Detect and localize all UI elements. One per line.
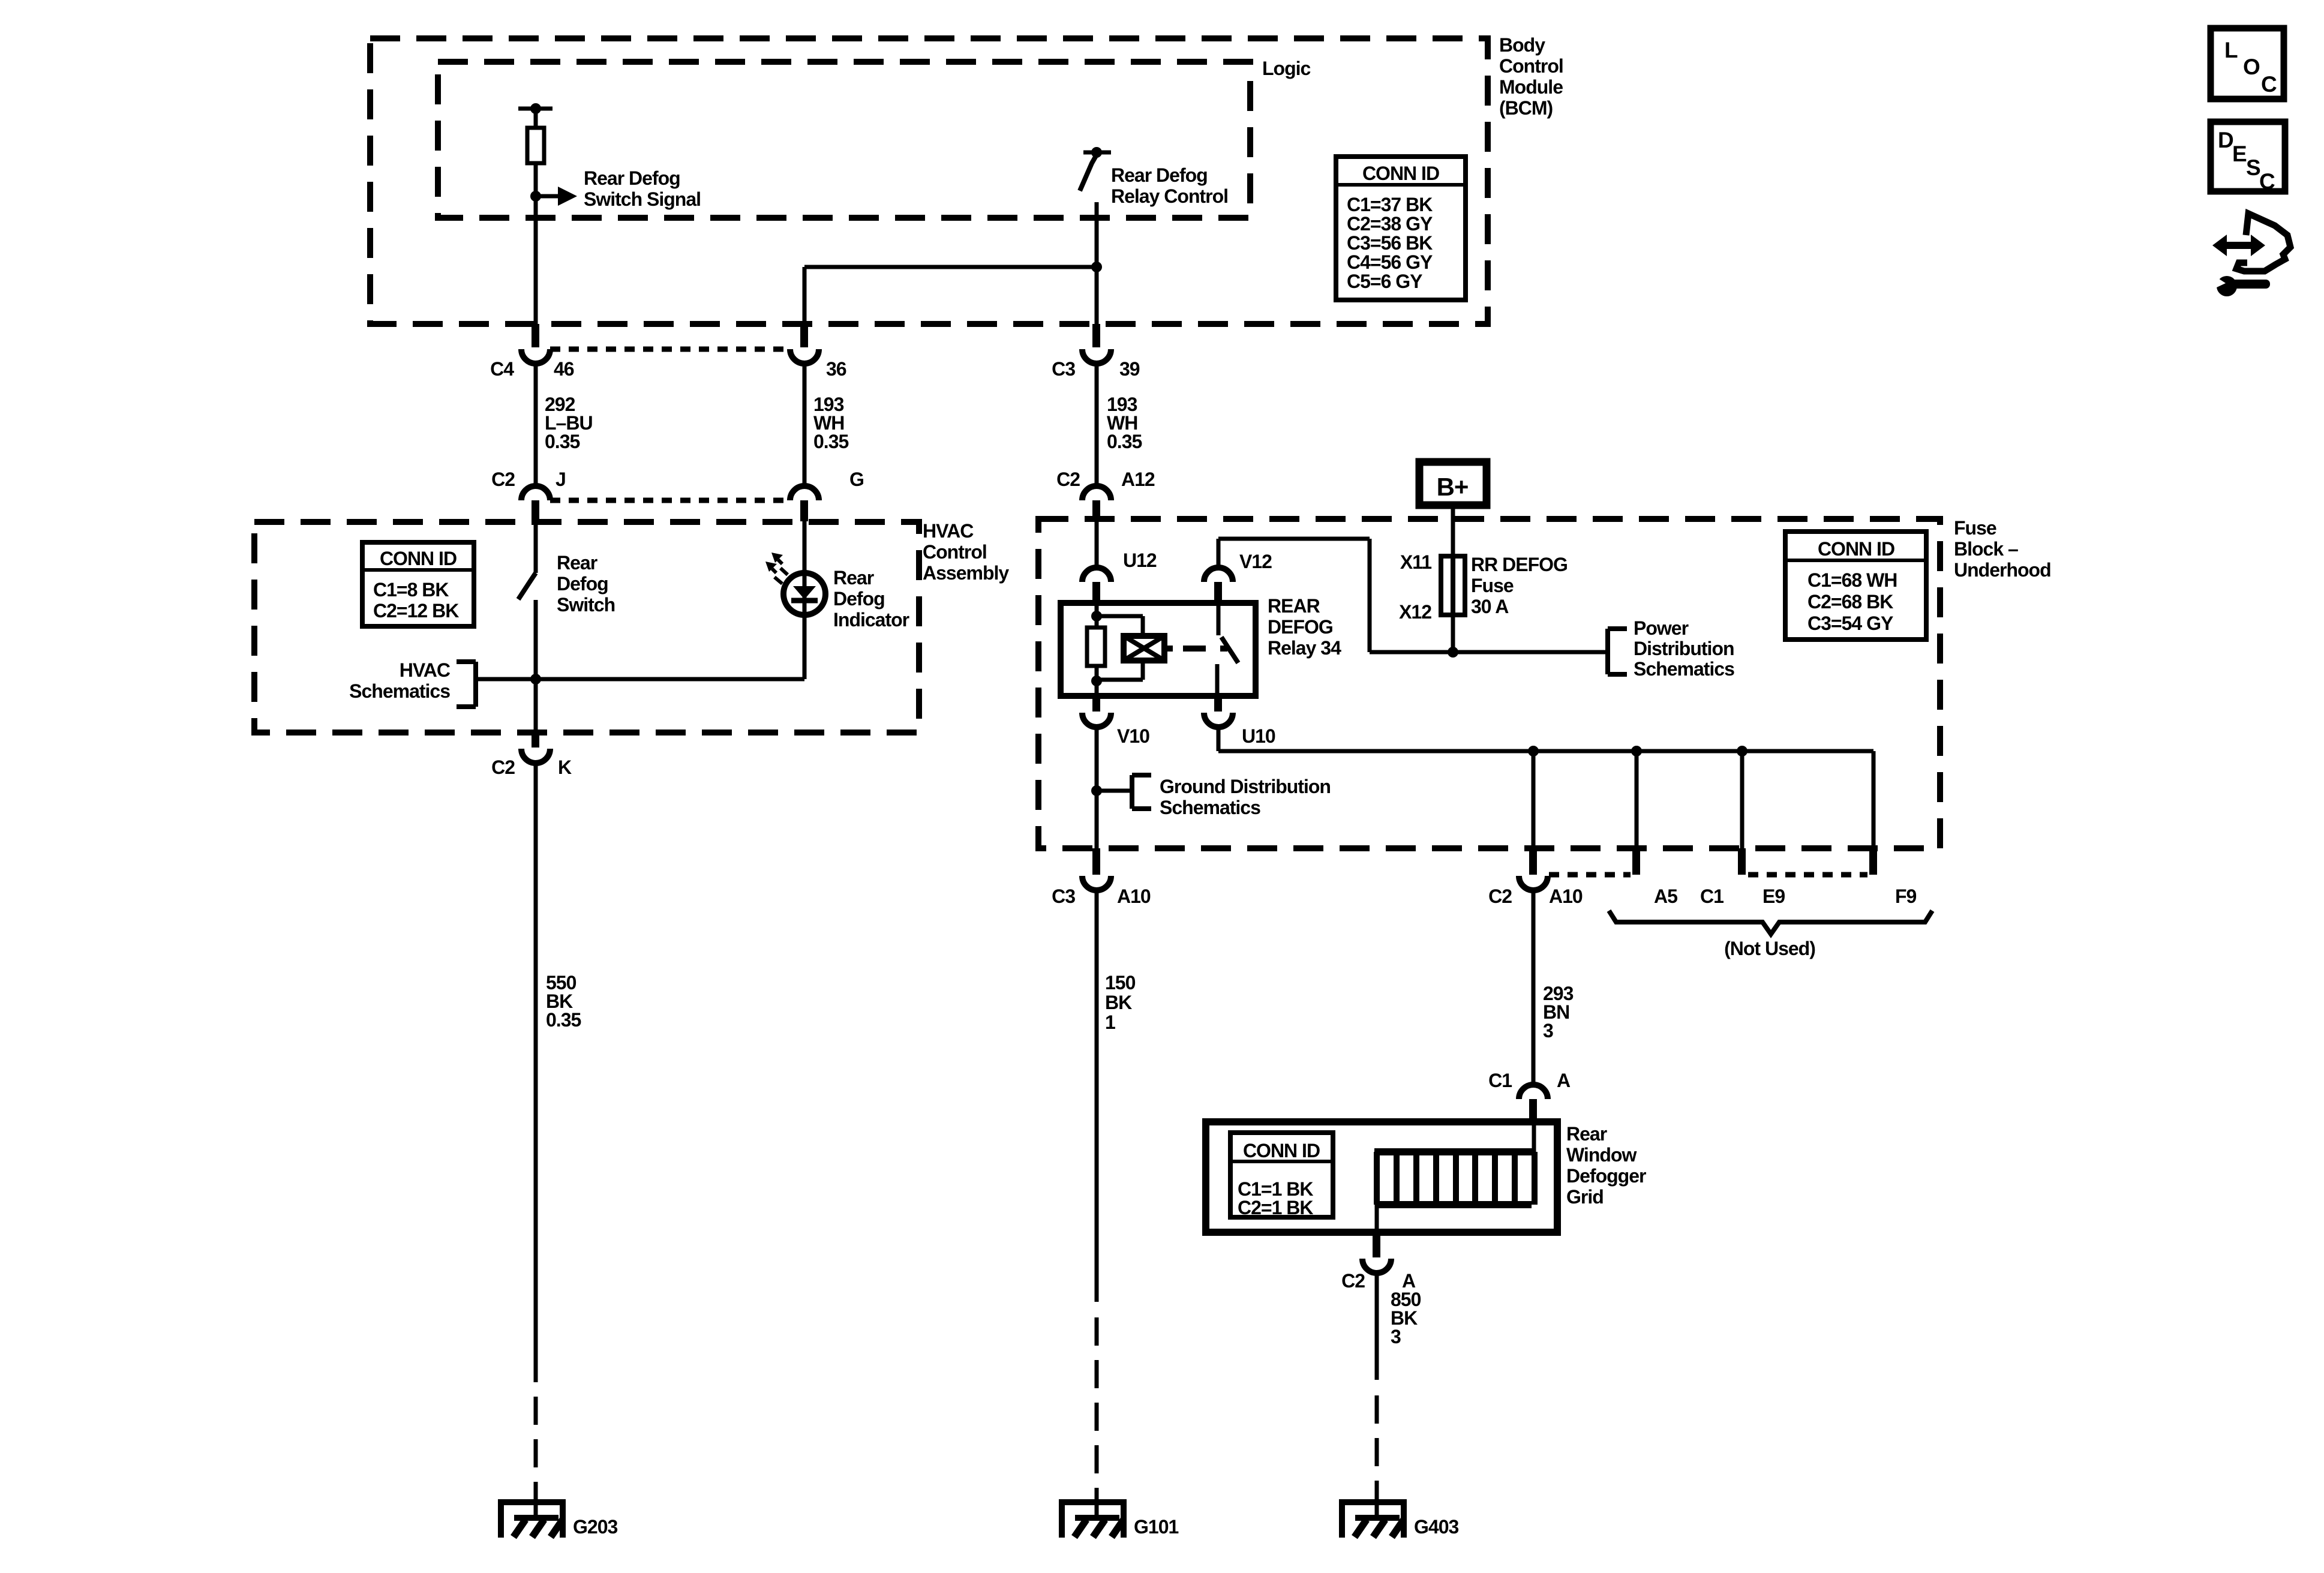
B+ terminal box xyxy=(1419,462,1487,505)
svg-text:C2: C2 xyxy=(1488,885,1512,907)
connector C4 pin 46 xyxy=(532,324,539,347)
svg-text:C5=6 GY: C5=6 GY xyxy=(1347,271,1422,292)
LED circle (Rear Defog Indicator) xyxy=(783,573,825,615)
svg-text:C1=8 BK: C1=8 BK xyxy=(373,579,449,601)
wire 550 BK xyxy=(534,763,538,1382)
wire fuse output to bracket xyxy=(1453,650,1608,655)
svg-text:Relay Control: Relay Control xyxy=(1111,185,1228,207)
svg-text:D: D xyxy=(2218,128,2233,152)
relay mech link dashed xyxy=(1164,646,1173,652)
fuse RR DEFOG 30A xyxy=(1441,556,1465,615)
service icon (double arrow, component outline, wrench) xyxy=(2212,235,2265,256)
LED wire through xyxy=(803,573,807,615)
relay switch blade xyxy=(1221,637,1238,663)
svg-text:Schematics: Schematics xyxy=(1634,658,1734,680)
wire U10 bus xyxy=(1217,727,1221,751)
node junction E9 xyxy=(1737,746,1747,757)
svg-text:Underhood: Underhood xyxy=(1954,559,2051,581)
wire dashed to G101 xyxy=(1095,1317,1099,1500)
svg-text:(BCM): (BCM) xyxy=(1499,97,1553,119)
LOC icon box xyxy=(2211,28,2284,99)
svg-text:CONN ID: CONN ID xyxy=(1818,538,1894,560)
svg-text:X12: X12 xyxy=(1399,601,1431,623)
wire V12 jog to fuse node xyxy=(1217,539,1221,568)
svg-text:0.35: 0.35 xyxy=(813,431,848,452)
wire drop to A5 xyxy=(1635,751,1639,848)
DESC icon box xyxy=(2211,122,2285,191)
svg-text:HVAC: HVAC xyxy=(400,659,451,681)
wire to ground distribution bracket xyxy=(1097,789,1132,793)
svg-text:C2=1 BK: C2=1 BK xyxy=(1238,1197,1313,1218)
svg-text:1: 1 xyxy=(1105,1011,1115,1033)
svg-text:Body: Body xyxy=(1499,34,1545,56)
wire 150 BK xyxy=(1095,890,1099,1302)
svg-text:150: 150 xyxy=(1105,972,1136,993)
svg-text:Defogger: Defogger xyxy=(1566,1165,1646,1187)
svg-text:U10: U10 xyxy=(1242,725,1275,747)
svg-text:Indicator: Indicator xyxy=(833,609,909,631)
svg-text:C2: C2 xyxy=(1056,469,1080,490)
connector C2 cavity A (grid out) xyxy=(1373,1232,1380,1257)
svg-text:E: E xyxy=(2232,142,2247,166)
svg-text:Switch Signal: Switch Signal xyxy=(584,188,701,210)
svg-text:A5: A5 xyxy=(1654,885,1677,907)
relay coil box (X) xyxy=(1124,636,1164,661)
Power Distribution bracket xyxy=(1605,629,1610,674)
dotted harness line C4-36 xyxy=(550,347,790,352)
svg-text:Ground Distribution: Ground Distribution xyxy=(1160,776,1331,797)
node: supply T-bar (relay control) xyxy=(1083,151,1111,155)
svg-text:C1=68 WH: C1=68 WH xyxy=(1807,569,1897,591)
ground G101 xyxy=(1059,1499,1127,1505)
svg-text:Power: Power xyxy=(1634,617,1689,639)
wire switch lower contact xyxy=(534,600,538,679)
connector C3 cavity A10 xyxy=(1092,848,1100,875)
svg-text:C2=38 GY: C2=38 GY xyxy=(1347,213,1433,235)
switch blade: Rear Defog Switch xyxy=(518,573,536,599)
LED emission arrows xyxy=(771,553,783,563)
svg-text:3: 3 xyxy=(1391,1326,1401,1347)
wire 850 BK xyxy=(1375,1273,1379,1380)
svg-text:Fuse: Fuse xyxy=(1954,517,1996,539)
svg-text:C3: C3 xyxy=(1052,885,1075,907)
svg-text:S: S xyxy=(2246,155,2260,180)
svg-text:C3=54 GY: C3=54 GY xyxy=(1807,613,1893,634)
defogger grid element xyxy=(1374,1148,1535,1155)
Ground Distribution bracket xyxy=(1130,775,1134,809)
svg-text:O: O xyxy=(2243,55,2260,79)
node junction fuse output xyxy=(1448,647,1458,658)
relay switch top contact xyxy=(1217,603,1221,635)
node junction (relay control branch) xyxy=(1091,262,1102,272)
svg-text:Fuse: Fuse xyxy=(1471,575,1514,596)
svg-text:Block –: Block – xyxy=(1954,538,2018,560)
wire 193 WH (36 to G) xyxy=(803,362,807,486)
HVAC Control Assembly dashed box xyxy=(254,522,919,733)
svg-text:C1: C1 xyxy=(1488,1070,1512,1091)
wire G to LED xyxy=(803,521,807,573)
relay switch bottom contact xyxy=(1215,664,1220,696)
wire B+ down xyxy=(1451,508,1455,652)
switch blade (Rear Defog Relay Control) xyxy=(1080,155,1097,191)
svg-text:J: J xyxy=(556,469,566,490)
svg-text:36: 36 xyxy=(826,358,846,380)
wire V10 down xyxy=(1095,727,1099,848)
wire 293 BN xyxy=(1532,890,1536,1085)
svg-text:G203: G203 xyxy=(573,1516,617,1538)
svg-text:Rear: Rear xyxy=(557,552,597,574)
node junction coil bottom xyxy=(1091,676,1102,686)
svg-text:DEFOG: DEFOG xyxy=(1268,616,1333,638)
svg-text:Rear: Rear xyxy=(833,567,874,589)
svg-text:A10: A10 xyxy=(1549,885,1583,907)
HVAC CONN ID table xyxy=(362,542,474,626)
dotted line E9-F9 xyxy=(1748,872,1867,878)
svg-text:C3: C3 xyxy=(1052,358,1075,380)
svg-text:CONN ID: CONN ID xyxy=(1243,1140,1320,1161)
relay coil resistor xyxy=(1087,628,1105,666)
arrow: Rear Defog Switch Signal xyxy=(538,194,558,199)
svg-text:C1=37 BK: C1=37 BK xyxy=(1347,194,1433,215)
svg-text:A: A xyxy=(1557,1070,1571,1091)
dotted harness line J-G xyxy=(550,498,790,503)
resistor R (BCM pull-up) xyxy=(527,128,544,163)
connector 36 xyxy=(800,324,808,347)
connector C2 cavity A12 xyxy=(1082,486,1111,500)
svg-text:E9: E9 xyxy=(1762,885,1785,907)
svg-text:A12: A12 xyxy=(1121,469,1155,490)
node junction coil top xyxy=(1091,611,1102,622)
svg-text:U12: U12 xyxy=(1123,550,1157,571)
connector C2 cavity K xyxy=(532,733,539,748)
grid feed wire xyxy=(1532,1122,1536,1152)
svg-text:Switch: Switch xyxy=(557,594,615,616)
connector C2 cavity A10 (output) xyxy=(1529,848,1537,875)
svg-text:C2=68 BK: C2=68 BK xyxy=(1807,591,1893,613)
LED triangle xyxy=(793,586,816,599)
svg-text:30 A: 30 A xyxy=(1471,596,1509,617)
wire resistor bottom xyxy=(1095,666,1099,696)
svg-text:C2=12 BK: C2=12 BK xyxy=(373,600,459,622)
svg-text:Window: Window xyxy=(1566,1144,1637,1166)
svg-text:Distribution: Distribution xyxy=(1634,638,1734,659)
wire 292 L-BU (C4 to C2/J) xyxy=(534,362,538,486)
svg-text:Relay 34: Relay 34 xyxy=(1268,637,1341,659)
svg-text:C4: C4 xyxy=(490,358,514,380)
pin E9 stub (not used) xyxy=(1738,848,1746,875)
relay box REAR DEFOG Relay 34 xyxy=(1061,603,1256,696)
wire dashed to G403 xyxy=(1375,1395,1379,1500)
grid output wire xyxy=(1375,1205,1379,1232)
svg-text:0.35: 0.35 xyxy=(1107,431,1142,452)
node junction (HVAC bus) xyxy=(530,674,541,685)
BCM box (Body Control Module) dashed outline xyxy=(370,38,1488,324)
svg-text:V12: V12 xyxy=(1239,551,1272,572)
svg-text:V10: V10 xyxy=(1117,725,1149,747)
svg-text:X11: X11 xyxy=(1400,551,1431,573)
svg-text:G403: G403 xyxy=(1414,1516,1458,1538)
svg-text:REAR: REAR xyxy=(1268,595,1320,617)
svg-text:Logic: Logic xyxy=(1262,58,1311,79)
connector V10 xyxy=(1092,696,1100,712)
svg-text:39: 39 xyxy=(1119,358,1140,380)
node junction A10 feed xyxy=(1528,746,1539,757)
pin F9 stub (not used) xyxy=(1869,848,1877,875)
svg-text:3: 3 xyxy=(1543,1020,1553,1041)
svg-text:46: 46 xyxy=(554,358,574,380)
connector U10 xyxy=(1214,696,1222,712)
svg-text:C3=56 BK: C3=56 BK xyxy=(1347,232,1433,254)
Fuse Block CONN ID table xyxy=(1785,532,1926,640)
svg-text:Assembly: Assembly xyxy=(923,562,1009,584)
Rear Window Defogger Grid box xyxy=(1206,1122,1557,1232)
svg-text:C4=56 GY: C4=56 GY xyxy=(1347,251,1433,273)
svg-text:Rear: Rear xyxy=(1566,1123,1607,1145)
svg-text:0.35: 0.35 xyxy=(545,431,580,452)
svg-text:C1: C1 xyxy=(1700,885,1724,907)
ground G203 xyxy=(498,1499,566,1505)
Logic box dashed outline xyxy=(438,62,1250,218)
Grid CONN ID table xyxy=(1230,1133,1333,1217)
svg-text:Schematics: Schematics xyxy=(1160,797,1260,818)
wire resistor top xyxy=(534,109,538,128)
wire drop to E9 xyxy=(1740,751,1744,848)
svg-text:Control: Control xyxy=(923,541,987,563)
HVAC Schematics bracket xyxy=(473,662,478,707)
wire bracket to switch node xyxy=(476,677,804,682)
wire relay control lower contact xyxy=(1095,202,1099,324)
node junction A5 xyxy=(1631,746,1642,757)
svg-text:B+: B+ xyxy=(1437,473,1469,501)
svg-text:Rear Defog: Rear Defog xyxy=(584,167,680,189)
svg-text:CONN ID: CONN ID xyxy=(1362,163,1439,184)
svg-text:RR DEFOG: RR DEFOG xyxy=(1471,554,1568,575)
svg-text:Control: Control xyxy=(1499,55,1563,77)
wire switch node down xyxy=(534,679,538,733)
svg-text:0.35: 0.35 xyxy=(546,1009,581,1031)
wire LED bottom to bus xyxy=(803,615,807,679)
wire drop to C2/A10 xyxy=(1532,751,1536,848)
svg-text:C2: C2 xyxy=(491,469,515,490)
svg-text:Defog: Defog xyxy=(557,573,608,595)
node junction (switch signal tap) xyxy=(530,191,541,202)
svg-text:Grid: Grid xyxy=(1566,1186,1604,1208)
svg-text:G: G xyxy=(849,469,864,490)
connector G (HVAC) xyxy=(790,486,819,500)
wire 193 WH (39 to A12) xyxy=(1095,362,1099,486)
dotted line A10-A5 xyxy=(1549,872,1631,878)
svg-text:G101: G101 xyxy=(1134,1516,1178,1538)
wire branch to pin 36 xyxy=(804,265,1097,269)
svg-text:HVAC: HVAC xyxy=(923,520,974,542)
wire drop to F9 xyxy=(1872,751,1876,848)
svg-text:C: C xyxy=(2261,72,2277,97)
svg-text:C: C xyxy=(2259,169,2275,194)
relay coil pin wire xyxy=(1095,603,1099,627)
svg-text:F9: F9 xyxy=(1895,885,1917,907)
wire into Rear Defog Switch xyxy=(534,521,538,573)
(Not Used) brace xyxy=(1609,911,1932,934)
svg-text:(Not Used): (Not Used) xyxy=(1724,938,1815,959)
connector C3 pin 39 xyxy=(1092,324,1100,347)
svg-text:Module: Module xyxy=(1499,76,1563,98)
svg-text:Schematics: Schematics xyxy=(349,680,450,702)
svg-text:CONN ID: CONN ID xyxy=(380,548,457,569)
connector C2 cavity J xyxy=(521,486,550,500)
svg-text:A10: A10 xyxy=(1117,885,1151,907)
BCM CONN ID table xyxy=(1336,157,1466,300)
node: supply T-bar (switch signal) xyxy=(518,107,553,111)
svg-text:C2: C2 xyxy=(1341,1270,1365,1292)
pin A5 stub (not used) xyxy=(1632,848,1640,875)
wire dashed to G203 xyxy=(534,1397,538,1500)
LED cathode bar xyxy=(791,598,818,604)
connector V12 xyxy=(1204,568,1233,582)
svg-text:BK: BK xyxy=(1105,992,1132,1013)
wire resistor bottom to C4 xyxy=(534,163,538,324)
connector U12 xyxy=(1082,568,1111,582)
relay coil loop xyxy=(1097,614,1143,619)
node junction ground distribution xyxy=(1091,785,1102,796)
wire A12 to U12 xyxy=(1095,514,1099,568)
ground G403 xyxy=(1339,1499,1407,1505)
svg-text:K: K xyxy=(558,757,572,778)
svg-text:C2: C2 xyxy=(491,757,515,778)
svg-text:L: L xyxy=(2224,38,2238,62)
svg-text:Defog: Defog xyxy=(833,588,885,610)
Fuse Block - Underhood dashed box xyxy=(1038,519,1940,848)
connector C1 cavity A xyxy=(1519,1085,1548,1099)
svg-text:Rear Defog: Rear Defog xyxy=(1111,164,1208,186)
